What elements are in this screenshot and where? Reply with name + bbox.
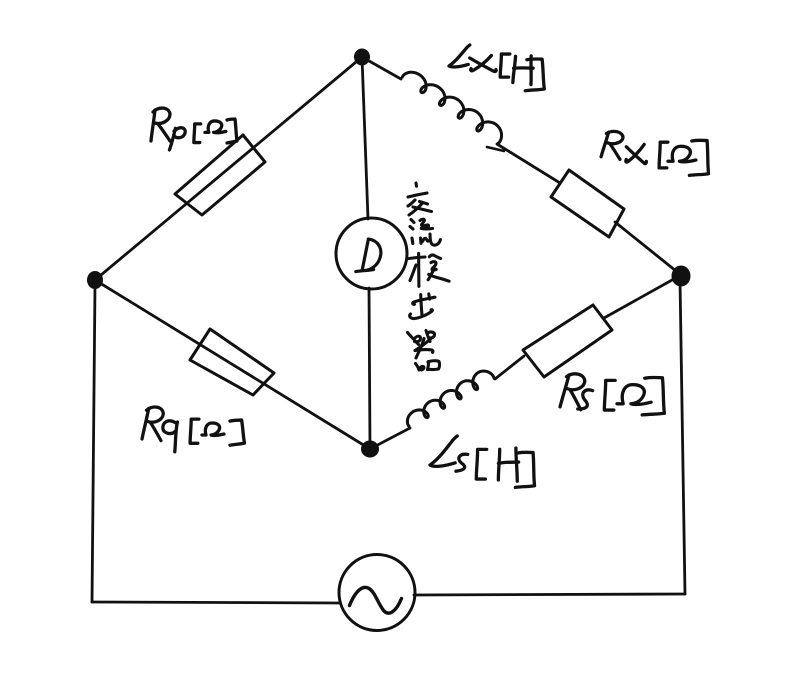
node junction bottom xyxy=(362,441,379,457)
wire left node down xyxy=(92,285,95,602)
label Ls[H] xyxy=(430,436,537,489)
wire left node to top node (through Rp) xyxy=(95,57,362,280)
node junction top xyxy=(355,49,370,65)
node junction right xyxy=(672,266,690,286)
wire bottom left horizontal xyxy=(92,602,340,603)
label kanji ken (AC detector text 3) xyxy=(409,253,449,286)
resistor Rs xyxy=(523,305,612,377)
wire Ls coil to Rs resistor xyxy=(495,356,524,379)
wire detector to bottom node xyxy=(369,288,370,449)
label kanji ryuu (AC detector text 2) xyxy=(410,219,440,245)
wire Rx resistor to right node xyxy=(615,222,681,275)
wire left node to bottom node (through Rq) xyxy=(95,280,370,449)
label Lx[H] xyxy=(449,45,546,92)
wire Rs resistor to right node xyxy=(604,275,681,318)
wire top node to detector xyxy=(362,57,368,219)
resistor Rq xyxy=(190,329,274,395)
wire bottom node to Ls coil xyxy=(370,428,410,449)
label Rq[ohm] xyxy=(142,406,244,452)
label Rs[ohm] xyxy=(560,372,667,416)
source circle xyxy=(339,555,415,631)
wire bottom right horizontal xyxy=(414,594,685,595)
resistor Rx xyxy=(551,170,624,237)
detector circle D xyxy=(336,218,407,289)
label Rx[ohm] xyxy=(601,130,711,177)
label kanji kou (AC detector text 1) xyxy=(408,183,432,215)
wire overlap tick at Lx coil end xyxy=(487,147,504,151)
wire Lx coil to Rx resistor xyxy=(497,144,560,183)
label kanji shutsu (AC detector text 4) xyxy=(410,294,435,319)
wire right node down xyxy=(680,280,685,594)
inductor Ls coil xyxy=(407,371,494,426)
node junction left xyxy=(88,272,103,289)
label kanji ki (AC detector text 5) xyxy=(408,331,440,371)
label Rp[ohm] xyxy=(151,108,237,151)
wire top node to Lx coil xyxy=(362,57,401,79)
resistor Rp xyxy=(175,135,265,215)
inductor Lx coil xyxy=(402,72,501,143)
detector letter D xyxy=(356,239,381,272)
source sine wave xyxy=(350,587,402,613)
